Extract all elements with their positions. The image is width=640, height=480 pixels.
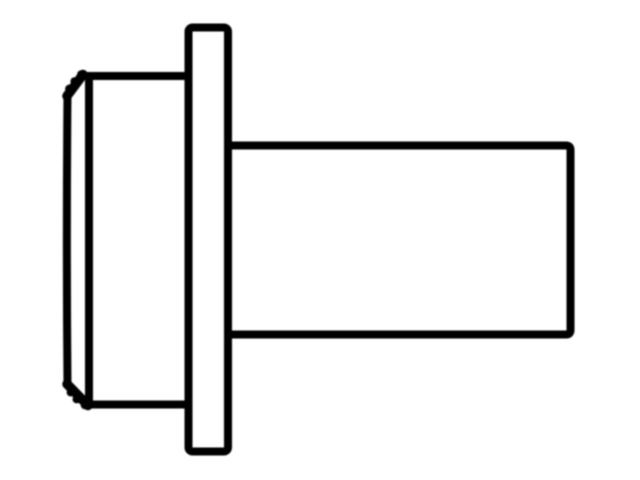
head left outer edge <box>63 94 72 386</box>
chamfer bump bottom a <box>67 388 75 396</box>
flange <box>189 28 229 452</box>
head top line <box>80 72 190 80</box>
head bottom line <box>84 401 190 409</box>
chamfer bump top b <box>65 85 73 93</box>
chamfer nub at bottom line end <box>81 401 90 410</box>
shaft <box>228 146 571 335</box>
head bottom-left chamfer diagonal <box>67 384 88 406</box>
chamfer nub at top line end <box>77 70 86 79</box>
chamfer bump bottom b <box>73 395 81 403</box>
head top-left chamfer diagonal <box>67 75 83 97</box>
head inner vertical <box>85 74 93 406</box>
chamfer bump top a <box>70 77 78 85</box>
